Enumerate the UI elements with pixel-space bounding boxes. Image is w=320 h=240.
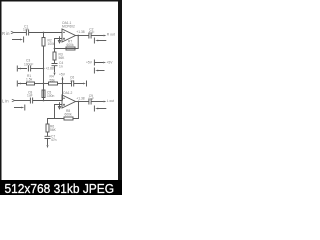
svg-text:1uF: 1uF bbox=[89, 31, 95, 35]
svg-text:+1.38: +1.38 bbox=[76, 97, 85, 101]
+5V feed row bbox=[86, 60, 113, 66]
svg-text:100k: 100k bbox=[48, 42, 56, 46]
gnd arrow bottom bbox=[47, 139, 49, 149]
svg-text:R in: R in bbox=[2, 31, 10, 36]
border frame bbox=[0, 0, 122, 182]
svg-text:1n: 1n bbox=[70, 79, 74, 83]
feedback wire U2 bbox=[73, 102, 79, 119]
capacitor C7 bbox=[45, 134, 57, 142]
capacitor C6 bbox=[70, 76, 74, 87]
svg-text:100nF: 100nF bbox=[24, 62, 33, 66]
feedback wire to input bbox=[55, 105, 65, 119]
svg-text:L in: L in bbox=[2, 98, 9, 103]
wire bbox=[58, 83, 72, 85]
wire bbox=[47, 132, 49, 136]
gnd arrow mid-left 1 bbox=[17, 66, 27, 72]
gnd arrow right mid bbox=[94, 68, 104, 74]
resistor R3 bbox=[53, 52, 65, 60]
port L-out bbox=[104, 99, 114, 103]
wire output U2 bbox=[76, 101, 89, 103]
wire to R-out bbox=[91, 35, 104, 37]
+5V supply arrow bbox=[59, 72, 66, 84]
svg-text:+5V: +5V bbox=[59, 72, 66, 76]
svg-text:47n: 47n bbox=[51, 138, 57, 142]
svg-text:600k: 600k bbox=[65, 113, 73, 117]
svg-text:600k: 600k bbox=[67, 43, 75, 47]
feedback wire U1 bbox=[66, 36, 78, 49]
wire bbox=[35, 83, 49, 85]
svg-text:+2.88: +2.88 bbox=[46, 66, 55, 70]
resistor R7 bbox=[66, 40, 75, 50]
wire bbox=[54, 60, 56, 64]
capacitor C4 bbox=[52, 61, 64, 69]
svg-text:55k: 55k bbox=[50, 78, 56, 82]
op-amp U2 OA1.2 bbox=[62, 91, 76, 108]
gnd arrow bbox=[54, 66, 56, 76]
wire node A down bbox=[43, 46, 45, 101]
svg-text:1n: 1n bbox=[59, 65, 63, 69]
svg-text:1uF: 1uF bbox=[27, 94, 33, 98]
port R-out bbox=[104, 32, 115, 36]
feedback wire to +input bbox=[55, 39, 67, 49]
gnd arrow bottom-right bbox=[94, 106, 106, 112]
svg-text:512x768 31kb JPEG: 512x768 31kb JPEG bbox=[5, 181, 115, 195]
svg-text:100n: 100n bbox=[47, 94, 55, 98]
resistor R6 bbox=[46, 124, 57, 132]
node A junction bbox=[43, 32, 45, 34]
gnd arrow bottom-left bbox=[14, 105, 25, 111]
resistor R1 bbox=[26, 74, 35, 85]
svg-text:R out: R out bbox=[107, 32, 115, 36]
svg-text:MCP602: MCP602 bbox=[62, 25, 75, 29]
R6 C7 chain bbox=[48, 119, 55, 125]
wire output U1 bbox=[76, 35, 89, 37]
resistor R4 bbox=[49, 75, 58, 85]
wire +input chain bbox=[54, 49, 56, 53]
resistor C5 on node A bbox=[42, 90, 55, 98]
port R-in bbox=[2, 31, 14, 36]
gnd arrow top-left bbox=[12, 37, 24, 43]
wire bbox=[29, 32, 62, 34]
svg-text:1.5k: 1.5k bbox=[26, 78, 33, 82]
wire + port arrow bbox=[74, 81, 87, 87]
node +1.38 bbox=[76, 30, 85, 36]
svg-text:OA1.2: OA1.2 bbox=[63, 91, 73, 95]
resistor R8 bbox=[64, 109, 73, 120]
svg-text:+5V: +5V bbox=[107, 61, 114, 65]
wire node down to U2 bbox=[62, 84, 64, 101]
wire bbox=[33, 100, 62, 102]
capacitor C2 bbox=[89, 27, 95, 38]
wire input bottom bbox=[15, 100, 31, 102]
capacitor C8 bbox=[27, 90, 33, 103]
pin marker bbox=[58, 36, 60, 43]
pin marker bbox=[58, 102, 60, 109]
wire to L-out bbox=[91, 101, 104, 103]
svg-text:56K: 56K bbox=[50, 128, 57, 132]
gnd arrow top-right bbox=[94, 38, 106, 44]
svg-text:1uF: 1uF bbox=[23, 28, 29, 32]
op-amp U1 OA1.1 bbox=[62, 21, 76, 42]
capacitor C1 bbox=[23, 24, 29, 35]
port L-in bbox=[2, 98, 15, 103]
svg-text:L out: L out bbox=[107, 99, 114, 103]
node +2.88 bbox=[43, 66, 54, 70]
wire input top bbox=[14, 32, 27, 34]
capacitor C3 bbox=[24, 59, 33, 72]
svg-text:56K: 56K bbox=[59, 56, 66, 60]
svg-text:+1.38: +1.38 bbox=[76, 30, 85, 34]
resistor R2 bbox=[42, 33, 55, 47]
svg-text:1uF: 1uF bbox=[88, 97, 94, 101]
svg-text:+5V: +5V bbox=[86, 61, 93, 65]
wire to node bbox=[31, 68, 44, 70]
node +1.38 lower bbox=[76, 97, 85, 103]
capacitor C9 out bbox=[88, 94, 94, 105]
caption bar bbox=[0, 180, 122, 196]
gnd arrow mid-left 2 bbox=[17, 81, 26, 87]
